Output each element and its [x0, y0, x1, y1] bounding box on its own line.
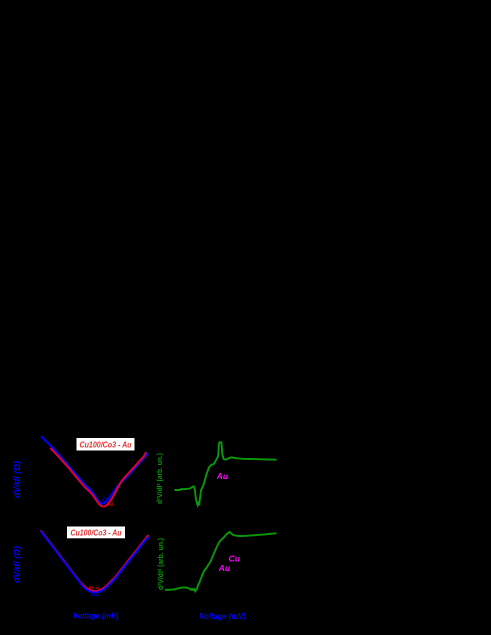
svg-text:dV/dI (Ω): dV/dI (Ω)	[12, 461, 22, 498]
curve blue dV/dI bottom-left	[41, 531, 149, 593]
svg-text:Au: Au	[216, 471, 229, 481]
svg-text:Voltage (mV): Voltage (mV)	[199, 611, 246, 621]
min dash (red, bottom-left)	[95, 587, 99, 589]
label box Cu100/Co3 - Au (top)	[77, 438, 135, 451]
curve blue dV/dI top-left	[41, 436, 148, 503]
svg-text:Au: Au	[88, 585, 94, 591]
svg-text:d²V/dI² (arb. un.): d²V/dI² (arb. un.)	[156, 538, 165, 590]
svg-text:Cu: Cu	[91, 592, 101, 598]
svg-text:Au: Au	[107, 502, 113, 508]
curve red dV/dI bottom-left	[41, 530, 149, 591]
svg-text:d²V/dI² (arb. un.): d²V/dI² (arb. un.)	[155, 453, 164, 504]
svg-text:Voltage (mV): Voltage (mV)	[73, 611, 119, 621]
svg-text:Cu100/Co3 - Au: Cu100/Co3 - Au	[71, 529, 122, 538]
svg-text:Cu100/Co3 - Au: Cu100/Co3 - Au	[80, 440, 133, 450]
svg-text:Au: Au	[218, 563, 231, 573]
svg-text:dV/dI (Ω): dV/dI (Ω)	[12, 546, 22, 583]
curve green d2V/dI2 top-right	[175, 442, 277, 505]
label box Cu100/Co3 - Au (bottom)	[67, 527, 125, 539]
curve red dV/dI top-left	[50, 448, 146, 507]
svg-text:Cu: Cu	[229, 554, 241, 564]
curve green d2V/dI2 bottom-right	[165, 532, 277, 591]
